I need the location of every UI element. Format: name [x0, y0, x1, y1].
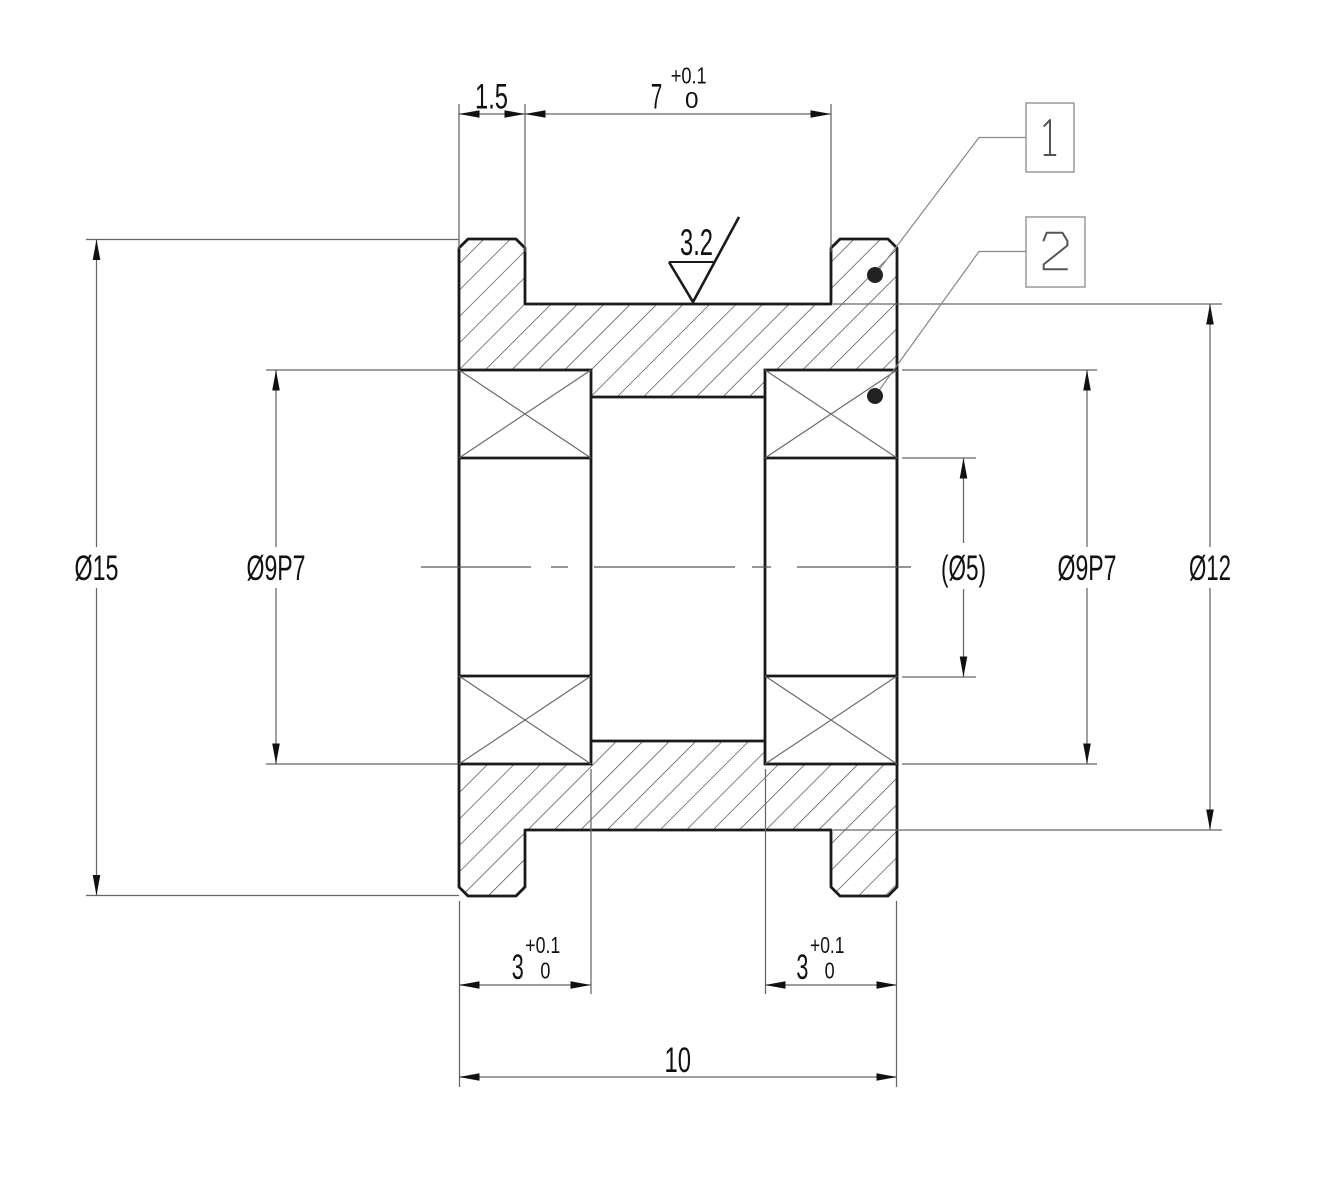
dimension 3 right extension lines — [766, 769, 897, 1087]
balloon 1 leader — [875, 138, 1026, 276]
svg-text:+0.1: +0.1 — [810, 932, 845, 958]
dimension 3 left line — [459, 984, 591, 986]
svg-text:Ø9P7: Ø9P7 — [247, 549, 306, 588]
bearing left upper cross — [459, 370, 591, 458]
arrow 3 left a — [459, 981, 480, 988]
arrow O9P7 right top — [1083, 370, 1091, 391]
bearing left ring divider lines — [459, 458, 591, 676]
svg-text:3.2: 3.2 — [680, 222, 713, 263]
arrow 1.5 right — [505, 110, 526, 117]
dimension O15 line — [96, 240, 98, 896]
dimension 3 left extension lines — [460, 769, 592, 1087]
arrow O12 bottom — [1206, 810, 1214, 831]
pulley body outer profile outline — [459, 239, 897, 896]
svg-text:3: 3 — [796, 948, 808, 987]
dimension O9P7 right line — [1086, 370, 1088, 764]
svg-text:0: 0 — [540, 958, 550, 984]
bearing right outline — [765, 370, 897, 764]
dimension 3 right line — [765, 984, 897, 986]
bearing left lower cross — [459, 676, 591, 764]
arrow O9P7 left bottom — [272, 744, 280, 765]
balloon 2 leader dot — [867, 388, 883, 404]
svg-text:Ø15: Ø15 — [75, 549, 119, 588]
balloon 2 box — [1026, 217, 1085, 287]
dimension 1.5 line — [459, 113, 525, 115]
arrow O9P7 left top — [272, 370, 280, 391]
svg-text:+0.1: +0.1 — [525, 932, 560, 958]
arrow O15 top — [93, 240, 101, 261]
svg-text:0: 0 — [685, 87, 699, 113]
arrow 3 right b — [877, 981, 898, 988]
dimension 1.5 extension lines — [459, 104, 525, 252]
arrow O5 top — [960, 458, 968, 479]
dimension 7 extension line right — [830, 104, 832, 252]
arrow 3 right a — [765, 981, 786, 988]
hub bore edges (web hole) — [591, 397, 765, 741]
dimension 7 line — [525, 113, 831, 115]
arrow 10 left — [459, 1073, 480, 1080]
surface finish symbol 3.2 — [669, 217, 739, 302]
dimension O9P7 left line — [275, 370, 277, 764]
balloon 1 leader dot — [867, 267, 883, 283]
arrow O5 bottom — [960, 657, 968, 678]
svg-text:Ø9P7: Ø9P7 — [1058, 549, 1117, 588]
balloon 1 digit — [1044, 120, 1057, 155]
svg-text:+0.1: +0.1 — [671, 63, 707, 89]
dimension O12 line — [1209, 304, 1211, 830]
arrow O12 top — [1206, 304, 1214, 325]
bearing right upper cross — [765, 370, 897, 458]
arrow 1.5 left — [459, 110, 480, 117]
bearing right lower cross — [765, 676, 897, 764]
pulley body section hatch fill — [459, 239, 897, 896]
balloon 2 digit — [1043, 233, 1068, 270]
dimension O9P7 right extension lines — [902, 370, 1097, 764]
dimension 10 line — [459, 1076, 897, 1078]
svg-text:3: 3 — [512, 948, 524, 987]
arrow 7 right — [811, 110, 832, 117]
dimension O15 extension lines — [86, 240, 459, 896]
svg-text:(Ø5): (Ø5) — [941, 549, 986, 588]
dimension O12 extension lines — [833, 304, 1222, 830]
balloon 1 box — [1026, 103, 1074, 172]
arrow O9P7 right bottom — [1083, 744, 1091, 765]
axis centerline — [421, 566, 911, 568]
bearing left outline — [459, 370, 591, 764]
svg-text:0: 0 — [825, 958, 835, 984]
balloon 2 leader — [875, 252, 1026, 397]
arrow O15 bottom — [93, 875, 101, 896]
bearing right ring divider lines — [765, 458, 897, 676]
dimension O5 extension ticks — [902, 458, 976, 677]
arrow 3 left b — [571, 981, 592, 988]
svg-text:1.5: 1.5 — [475, 78, 508, 117]
svg-text:7: 7 — [651, 78, 663, 117]
arrow 7 left — [525, 110, 546, 117]
dimension O9P7 left extension lines — [266, 370, 458, 764]
arrow 10 right — [877, 1073, 898, 1080]
svg-text:10: 10 — [665, 1041, 692, 1080]
svg-text:Ø12: Ø12 — [1189, 549, 1231, 588]
dimension O5 line — [963, 458, 965, 677]
